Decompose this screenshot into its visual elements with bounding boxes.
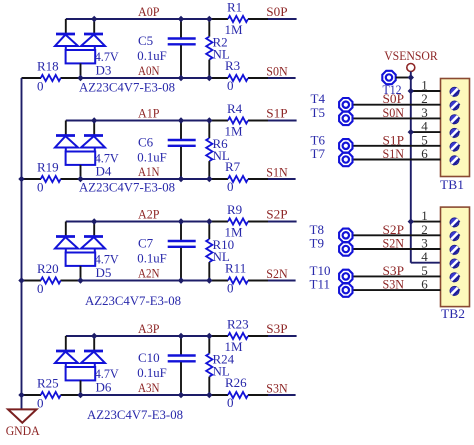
svg-text:A1N: A1N [138, 164, 160, 179]
test point T7 [339, 153, 352, 166]
svg-text:T11: T11 [310, 277, 330, 292]
svg-text:0.1uF: 0.1uF [137, 150, 167, 165]
TB2 screw terminal 3 [450, 245, 460, 254]
TB2 screw terminal 6 [450, 286, 460, 295]
resistor R19 0 [41, 176, 61, 182]
svg-text:AZ23C4V7-E3-08: AZ23C4V7-E3-08 [79, 179, 175, 194]
svg-text:R20: R20 [37, 261, 59, 276]
wire net A0N bottom [22, 77, 296, 79]
svg-text:S2P: S2P [266, 207, 287, 222]
svg-text:A1P: A1P [138, 106, 160, 121]
svg-text:R3: R3 [225, 58, 240, 73]
capacitor C10 0.1uF [168, 336, 196, 395]
TB2 screw terminal 4 [450, 259, 460, 268]
resistor R10 1M NL vertical [206, 222, 212, 281]
TB2 screw terminal 5 [450, 273, 460, 282]
svg-text:0: 0 [37, 281, 44, 296]
test point T5 [339, 112, 352, 125]
svg-text:R4: R4 [227, 101, 243, 116]
svg-text:D4: D4 [96, 164, 112, 179]
svg-text:R25: R25 [37, 376, 59, 391]
test point T10 [339, 270, 352, 283]
wire net A1N bottom [22, 178, 296, 180]
svg-text:1M: 1M [225, 124, 244, 139]
svg-text:0.1uF: 0.1uF [137, 365, 167, 380]
svg-text:C10: C10 [138, 350, 160, 365]
wire T12 to bus [396, 77, 411, 79]
svg-text:1M: 1M [225, 22, 244, 37]
svg-text:S1P: S1P [266, 106, 287, 121]
resistor R26 0 [228, 392, 248, 398]
svg-text:S1N: S1N [383, 146, 405, 161]
svg-text:0.1uF: 0.1uF [137, 251, 167, 266]
capacitor C6 0.1uF [168, 121, 196, 180]
wire TB1 pin 3 S0N [353, 117, 441, 119]
svg-text:S3P: S3P [266, 321, 287, 336]
svg-text:R19: R19 [37, 160, 59, 175]
svg-text:A0P: A0P [138, 4, 160, 19]
resistor R20 0 [41, 277, 61, 283]
svg-text:D6: D6 [96, 380, 112, 395]
svg-text:S0N: S0N [266, 64, 288, 79]
svg-text:TB1: TB1 [440, 177, 464, 192]
junction dot TB1 pin4 [408, 129, 414, 135]
svg-text:A0N: A0N [138, 63, 160, 78]
svg-text:R18: R18 [37, 59, 59, 74]
wire net A1P top [66, 120, 297, 122]
svg-text:0: 0 [227, 78, 234, 93]
svg-text:0: 0 [37, 79, 44, 94]
junction dots block 1 [18, 117, 212, 182]
svg-text:S2N: S2N [266, 266, 288, 281]
test point T4 [339, 98, 352, 111]
wire net A2P top [66, 221, 297, 223]
connector TB1 terminal block body [441, 79, 470, 177]
resistor R6 1M NL vertical [206, 121, 212, 180]
svg-text:R1: R1 [227, 0, 242, 15]
svg-text:R11: R11 [225, 261, 246, 276]
svg-text:S2N: S2N [383, 236, 405, 251]
junction dot T12/bus [408, 74, 414, 80]
resistor R3 0 [228, 75, 248, 81]
TB1 screw terminal 5 [450, 142, 460, 151]
junction dot TB1 pin1 [408, 88, 414, 94]
svg-text:D5: D5 [96, 265, 112, 280]
resistor R2 1M NL vertical [206, 19, 212, 78]
wire net A0P top [66, 18, 297, 20]
TB1 screw terminal 1 [450, 87, 460, 96]
wire TB1 pin 5 S1P [353, 145, 441, 147]
wire TB2 pin 3 S2N [353, 248, 441, 250]
svg-text:S0N: S0N [383, 105, 405, 120]
capacitor C5 0.1uF [168, 19, 196, 78]
svg-text:D3: D3 [96, 63, 112, 78]
svg-text:A3P: A3P [138, 321, 160, 336]
svg-text:0.1uF: 0.1uF [137, 48, 167, 63]
wire TB1 pin 2 S0P [353, 104, 441, 106]
svg-text:C6: C6 [138, 135, 154, 150]
resistor R25 0 [41, 392, 61, 398]
svg-text:1M: 1M [225, 339, 244, 354]
diode D6 dual TVS [55, 336, 105, 395]
svg-text:S3N: S3N [266, 381, 288, 396]
resistor R4 1M [228, 117, 248, 123]
svg-text:0: 0 [37, 396, 44, 411]
junction dots block 2 [18, 218, 212, 283]
TB2 screw terminal 1 [450, 218, 460, 227]
svg-text:GNDA: GNDA [6, 423, 41, 438]
svg-text:6: 6 [421, 277, 428, 292]
svg-text:S1N: S1N [266, 165, 288, 180]
svg-text:A3N: A3N [138, 380, 160, 395]
svg-text:R23: R23 [227, 317, 249, 332]
resistor R11 0 [228, 277, 248, 283]
test point T11 [339, 283, 352, 296]
junction dots block 3 [18, 333, 212, 398]
svg-text:0: 0 [37, 180, 44, 195]
svg-text:6: 6 [421, 146, 428, 161]
svg-text:C7: C7 [138, 236, 154, 251]
wire GNDA bus vertical [21, 78, 23, 409]
svg-text:A2P: A2P [138, 207, 160, 222]
svg-text:S0P: S0P [266, 4, 287, 19]
wire net A3N bottom [22, 394, 296, 396]
wire TB2 pin 5 S3P [353, 275, 441, 277]
svg-text:R9: R9 [227, 202, 242, 217]
svg-text:VSENSOR: VSENSOR [384, 48, 438, 63]
svg-text:0: 0 [227, 395, 234, 410]
diode D5 dual TVS [55, 222, 105, 281]
svg-text:S3N: S3N [383, 277, 405, 292]
ground GNDA power port [8, 409, 37, 422]
svg-text:T5: T5 [311, 105, 325, 120]
connector TB2 terminal block body [441, 207, 470, 307]
junction dots block 0 [77, 16, 212, 81]
test point T8 [339, 229, 352, 242]
wire TB1 pin 4 from VSENSOR bus [411, 131, 441, 133]
wire TB2 pin 6 S3N [353, 289, 441, 291]
resistor R1 1M [228, 16, 248, 22]
svg-text:AZ23C4V7-E3-08: AZ23C4V7-E3-08 [79, 80, 175, 95]
svg-text:R7: R7 [225, 159, 241, 174]
test point T9 [339, 242, 352, 255]
TB1 screw terminal 4 [450, 128, 460, 137]
wire TB2 pin 2 S2P [353, 234, 441, 236]
wire net A2N bottom [22, 280, 296, 282]
power port VSENSOR circle [407, 64, 415, 72]
svg-text:1M: 1M [225, 225, 244, 240]
svg-text:C5: C5 [138, 33, 153, 48]
test point T6 [339, 139, 352, 152]
svg-text:0: 0 [227, 281, 234, 296]
svg-text:AZ23C4V7-E3-08: AZ23C4V7-E3-08 [87, 407, 183, 422]
junction dot TB2 pin1 [408, 218, 414, 224]
svg-text:TB2: TB2 [441, 306, 465, 321]
test point T12 [382, 71, 395, 84]
wire net A3P top [66, 335, 297, 337]
svg-text:AZ23C4V7-E3-08: AZ23C4V7-E3-08 [85, 293, 181, 308]
svg-text:0: 0 [227, 179, 234, 194]
TB1 screw terminal 3 [450, 115, 460, 124]
wire TB1 pin 6 S1N [353, 159, 441, 161]
TB1 screw terminal 2 [450, 101, 460, 110]
diode D4 dual TVS [55, 121, 105, 180]
TB1 screw terminal 6 [450, 156, 460, 165]
resistor R18 0 [41, 75, 61, 81]
svg-text:A2N: A2N [138, 266, 160, 281]
wire VSENSOR bus vertical [411, 72, 441, 263]
diode D3 dual TVS [55, 19, 105, 78]
wire TB2 pin 1 from VSENSOR bus [411, 221, 441, 223]
svg-text:T7: T7 [311, 146, 326, 161]
resistor R9 1M [228, 218, 248, 224]
svg-text:R26: R26 [225, 375, 247, 390]
resistor R24 1M NL vertical [206, 336, 212, 395]
resistor R7 0 [228, 176, 248, 182]
svg-text:T9: T9 [310, 236, 324, 251]
capacitor C7 0.1uF [168, 222, 196, 281]
resistor R23 1M [228, 333, 248, 339]
wire TB1 pin 1 from VSENSOR bus [411, 90, 441, 92]
TB2 screw terminal 2 [450, 232, 460, 241]
